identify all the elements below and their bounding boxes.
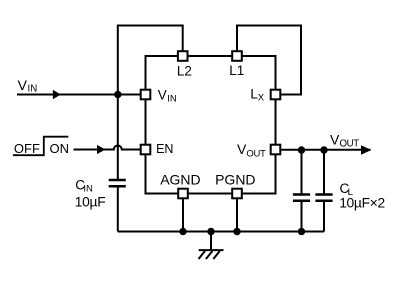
pin label LX [250,87,264,104]
pin label VOUT [237,141,266,159]
signal label OFF/ON [14,141,69,156]
svg-text:EN: EN [156,142,173,156]
wire AGND lead [182,198,184,232]
pin EN [141,145,151,155]
svg-text:V: V [18,77,28,93]
junction node VIN/CIN [114,91,121,98]
pin AGND [178,189,188,199]
svg-text:OFF: OFF [14,141,40,156]
wire CL2 top lead [323,150,325,195]
net label VIN (input) [18,77,38,95]
ground symbol [199,250,224,259]
svg-text:PGND: PGND [215,172,255,188]
value label CIN [75,178,106,210]
svg-text:IN: IN [167,94,177,105]
capacitor CL1 plates [293,195,310,201]
svg-text:10µF×2: 10µF×2 [339,195,385,210]
svg-text:IN: IN [83,184,93,195]
wire CIN bottom lead [117,186,119,231]
capacitor CL2 plates [315,195,332,201]
net label VOUT (output) [330,132,359,150]
svg-text:IN: IN [28,84,38,95]
value label CL [339,181,385,210]
wire input VIN to pin VIN [17,94,141,96]
capacitor CIN plates [109,180,126,186]
pin L2 [178,51,188,61]
junction node CL1 rail [298,228,305,235]
pin LX [271,90,281,100]
svg-text:10µF: 10µF [75,195,106,210]
svg-text:L2: L2 [177,63,192,78]
arrowhead on VIN input wire [53,90,61,99]
svg-text:OUT: OUT [340,139,360,150]
junction node AGND rail [179,228,186,235]
wire CL1 bottom lead [301,201,303,232]
wire ground rail [118,231,324,233]
arrowhead on VOUT output wire [361,145,371,155]
wire CL2 bottom lead [323,201,325,232]
wire CL1 top lead [301,150,303,195]
pin label VIN [158,88,177,105]
pin VOUT [271,145,281,155]
svg-text:L1: L1 [229,63,244,78]
svg-text:OUT: OUT [246,148,266,159]
arrowhead on EN wire [97,145,105,154]
wire output: pin VOUT to VOUT terminal [280,149,371,151]
wire PGND lead [236,198,238,232]
junction node VOUT/CL1 [298,146,305,153]
OFF/ON step waveform [13,137,68,156]
svg-text:V: V [330,132,340,148]
svg-text:AGND: AGND [160,172,200,188]
pin VIN [141,90,151,100]
wire inductor L1 loop: pin L1 up/right/down to pin LX [237,26,301,95]
junction node VOUT/CL2 [320,146,327,153]
svg-text:V: V [158,88,167,103]
pin L1 [232,51,242,61]
IC U1 body [146,56,276,194]
junction node PGND rail [233,228,240,235]
svg-text:ON: ON [50,141,70,156]
junction node ground rail [207,228,214,235]
svg-text:X: X [258,93,265,104]
pin PGND [232,189,242,199]
wire ground stub [210,232,212,251]
wire EN: OFF/ON signal to pin EN with hop over VIN net [74,146,142,150]
wire inductor L2 loop: pin L2 up/left/down to VIN node and on to CIN [118,26,183,181]
